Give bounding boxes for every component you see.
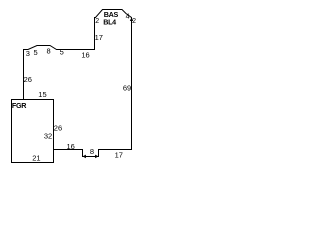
svg-text:2: 2 (132, 18, 136, 25)
svg-text:17: 17 (115, 151, 123, 160)
svg-text:4: 4 (126, 14, 130, 21)
svg-text:21: 21 (32, 153, 40, 162)
svg-text:26: 26 (24, 75, 32, 84)
svg-text:16: 16 (81, 50, 89, 59)
svg-text:BL4: BL4 (103, 17, 116, 26)
svg-text:FGR: FGR (12, 101, 27, 110)
svg-text:69: 69 (123, 83, 131, 92)
svg-text:15: 15 (38, 90, 46, 99)
svg-text:26: 26 (54, 123, 62, 132)
svg-text:5: 5 (34, 48, 38, 57)
svg-text:3: 3 (26, 49, 30, 58)
svg-text:17: 17 (95, 33, 103, 42)
svg-text:2: 2 (95, 18, 99, 25)
svg-text:16: 16 (67, 142, 75, 151)
svg-text:5: 5 (60, 48, 64, 57)
svg-text:8: 8 (47, 47, 51, 56)
svg-text:32: 32 (44, 131, 52, 140)
svg-text:8: 8 (90, 147, 94, 156)
